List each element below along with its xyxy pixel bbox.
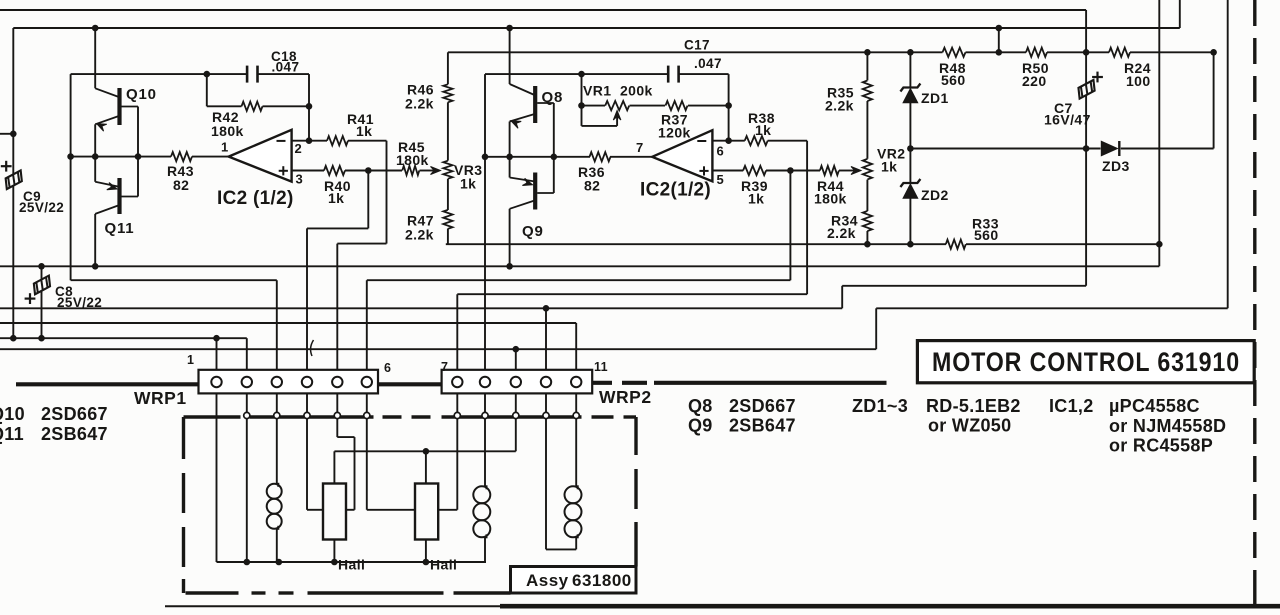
svg-text:25V/22: 25V/22 xyxy=(57,295,102,310)
svg-text:Hall: Hall xyxy=(338,557,365,573)
svg-text:or RC4558P: or RC4558P xyxy=(1109,436,1213,456)
svg-text:1k: 1k xyxy=(460,176,476,192)
svg-text:16V/47: 16V/47 xyxy=(1044,112,1091,128)
svg-text:Q11: Q11 xyxy=(105,220,135,237)
svg-text:2SD667: 2SD667 xyxy=(41,404,108,424)
svg-text:180k: 180k xyxy=(211,123,244,139)
svg-text:11: 11 xyxy=(594,360,608,374)
svg-text:1: 1 xyxy=(221,140,229,155)
svg-text:3: 3 xyxy=(296,172,304,187)
svg-text:220: 220 xyxy=(1022,73,1047,89)
svg-text:2SB647: 2SB647 xyxy=(729,416,796,436)
svg-text:631800: 631800 xyxy=(572,571,632,590)
svg-text:or WZ050: or WZ050 xyxy=(928,416,1011,436)
svg-text:ZD2: ZD2 xyxy=(921,187,949,203)
svg-text:WRP1: WRP1 xyxy=(134,388,187,408)
svg-text:180k: 180k xyxy=(396,152,429,168)
svg-text:MOTOR CONTROL 631910: MOTOR CONTROL 631910 xyxy=(932,347,1240,377)
svg-text:120k: 120k xyxy=(658,125,691,141)
svg-text:82: 82 xyxy=(173,177,189,193)
svg-text:IC2 (1/2): IC2 (1/2) xyxy=(217,188,294,209)
svg-text:1k: 1k xyxy=(328,190,344,206)
svg-text:ZD3: ZD3 xyxy=(1102,158,1130,174)
svg-text:2.2k: 2.2k xyxy=(827,225,856,241)
svg-text:Q10: Q10 xyxy=(126,86,157,103)
svg-text:VR1: VR1 xyxy=(583,83,611,99)
svg-text:.047: .047 xyxy=(272,60,300,75)
svg-text:ZD1~3: ZD1~3 xyxy=(852,396,908,416)
svg-text:7: 7 xyxy=(441,360,448,374)
svg-text:WRP2: WRP2 xyxy=(599,387,652,407)
svg-text:ZD1: ZD1 xyxy=(921,90,949,106)
svg-text:Q9: Q9 xyxy=(522,223,544,240)
svg-text:25V/22: 25V/22 xyxy=(19,200,64,215)
svg-text:82: 82 xyxy=(584,178,600,194)
svg-text:1: 1 xyxy=(187,353,194,367)
svg-text:6: 6 xyxy=(717,144,725,159)
svg-text:560: 560 xyxy=(974,227,999,243)
svg-text:1k: 1k xyxy=(755,122,771,138)
svg-text:Q9: Q9 xyxy=(688,416,713,436)
svg-text:RD-5.1EB2: RD-5.1EB2 xyxy=(926,396,1021,416)
svg-text:2.2k: 2.2k xyxy=(825,98,854,114)
svg-text:6: 6 xyxy=(384,361,391,375)
svg-text:µPC4558C: µPC4558C xyxy=(1109,396,1200,416)
svg-text:or NJM4558D: or NJM4558D xyxy=(1109,416,1226,436)
svg-text:2.2k: 2.2k xyxy=(405,96,434,112)
svg-text:7: 7 xyxy=(636,140,644,155)
svg-text:2.2k: 2.2k xyxy=(405,227,434,243)
svg-text:200k: 200k xyxy=(620,83,653,99)
svg-text:5: 5 xyxy=(717,172,725,187)
svg-text:IC2(1/2): IC2(1/2) xyxy=(640,180,711,201)
svg-text:2SB647: 2SB647 xyxy=(41,424,108,444)
svg-text:Q11: Q11 xyxy=(0,424,24,444)
svg-text:C17: C17 xyxy=(684,38,710,53)
svg-text:Q8: Q8 xyxy=(542,89,564,106)
svg-text:.047: .047 xyxy=(694,56,722,71)
svg-text:Q10: Q10 xyxy=(0,404,25,424)
svg-text:180k: 180k xyxy=(814,191,847,207)
svg-text:560: 560 xyxy=(941,72,966,88)
svg-text:IC1,2: IC1,2 xyxy=(1049,396,1094,416)
svg-text:2: 2 xyxy=(295,141,303,156)
svg-text:Hall: Hall xyxy=(430,557,457,573)
svg-text:1k: 1k xyxy=(881,159,897,175)
svg-text:Q8: Q8 xyxy=(688,396,713,416)
svg-text:Assy: Assy xyxy=(526,571,569,590)
svg-text:1k: 1k xyxy=(356,123,372,139)
svg-text:1k: 1k xyxy=(748,191,764,207)
svg-text:2SD667: 2SD667 xyxy=(729,396,796,416)
svg-text:100: 100 xyxy=(1126,73,1151,89)
